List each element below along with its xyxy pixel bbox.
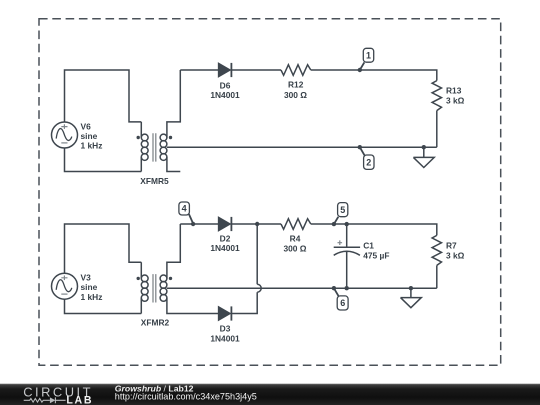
svg-text:4: 4 [182,204,187,214]
diode D3 [219,307,230,320]
svg-text:1N4001: 1N4001 [210,333,240,343]
node 6 flag [334,288,339,296]
node 2 flag [360,147,365,155]
wire R13 bottom [436,111,438,148]
svg-text:V3: V3 [81,272,92,282]
svg-text:XFMR5: XFMR5 [140,176,169,186]
wire R4 to R7 top [311,224,437,235]
svg-text:R4: R4 [290,233,301,243]
junction node 6 [332,286,336,290]
svg-text:5: 5 [340,205,345,215]
svg-text:6: 6 [340,298,345,308]
svg-text:C1: C1 [363,240,374,250]
junction node 4 [191,222,195,226]
wire center tap XFMR5 to R13 bottom [167,146,437,148]
svg-text:1N4001: 1N4001 [210,243,240,253]
svg-text:R13: R13 [446,86,462,96]
svg-text:V6: V6 [81,121,92,131]
transformer XFMR5 [137,70,181,172]
wire V3 top loop [65,224,142,273]
svg-text:300 Ω: 300 Ω [283,244,306,254]
svg-text:D3: D3 [220,323,231,333]
resistor R7 [432,235,441,265]
resistor R13 [432,81,441,111]
svg-text:1N4001: 1N4001 [210,90,240,100]
svg-text:1: 1 [366,51,371,61]
junction node 2 [358,145,362,149]
junction node 5 [332,222,336,226]
junction ground top [422,145,426,149]
resistor R12 [281,65,311,76]
wire to D6 [180,69,218,71]
wire D6 to R12 [231,69,281,71]
svg-text:2: 2 [366,158,371,168]
svg-text:3 kΩ: 3 kΩ [446,250,465,260]
node 1 flag [360,62,365,70]
svg-text:sine: sine [81,131,98,141]
transformer XFMR2 [137,224,219,314]
svg-text:D2: D2 [220,233,231,243]
wire V6 top loop [65,70,142,122]
wire V6 bottom loop [65,148,142,172]
voltage source V6 [52,122,78,148]
svg-text:XFMR2: XFMR2 [141,318,170,328]
node 4 flag [189,214,193,223]
schematic boundary (dashed frame) [39,19,501,366]
svg-text:http://circuitlab.com/c34xe75h: http://circuitlab.com/c34xe75h3j4y5 [115,391,257,401]
svg-text:D6: D6 [220,80,231,90]
voltage source V3 [52,273,78,299]
ground (bottom circuit) [401,288,422,308]
ground (top circuit) [413,147,434,167]
node 5 flag [334,217,338,224]
footer bar [0,384,540,405]
junction D2/D3 output [255,222,259,226]
svg-text:475 µF: 475 µF [363,250,389,260]
svg-text:R7: R7 [446,240,457,250]
wire R12 to R13 top [311,70,437,81]
wire D3 up to junction, with hop over center tap wire [231,224,261,314]
svg-text:R12: R12 [288,79,304,89]
logo squiggle: wire + resistor + diode [24,397,66,403]
svg-text:sine: sine [81,282,98,292]
junction ground bottom [409,286,413,290]
svg-text:300 Ω: 300 Ω [284,90,307,100]
capacitor C1 [334,224,360,288]
wire node4 to D2 [180,223,218,225]
diode D6 [219,63,230,76]
wire V3 bottom loop [65,299,142,313]
svg-text:LAB: LAB [66,395,93,405]
svg-text:1 kHz: 1 kHz [81,141,103,151]
svg-text:1 kHz: 1 kHz [81,292,103,302]
wire center tap XFMR2 to R7 bottom [167,287,437,289]
wire R7 bottom [436,265,438,288]
junction node 1 [358,68,362,72]
diode D2 [219,217,230,230]
resistor R4 [281,219,311,230]
svg-text:3 kΩ: 3 kΩ [446,95,465,105]
wire D2 to R4 [231,223,281,225]
junction C1 top [345,222,349,226]
junction C1 bottom [345,286,349,290]
